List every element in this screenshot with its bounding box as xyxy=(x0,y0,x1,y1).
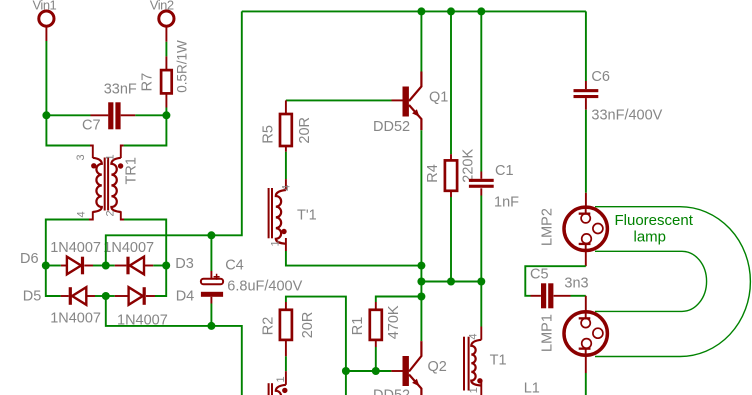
wire R4 bottom pin lead xyxy=(450,191,452,197)
wire D6 anode lead xyxy=(61,265,67,267)
wire LMP1 top pin lead xyxy=(585,296,587,311)
wire R7 top pin lead xyxy=(165,56,167,70)
svg-text:1: 1 xyxy=(275,376,287,382)
wire R2 top pin lead xyxy=(285,302,287,310)
svg-text:33nF/400V: 33nF/400V xyxy=(591,107,662,123)
wire D5 cathode lead xyxy=(61,295,69,297)
C4 plus sign xyxy=(214,274,220,280)
svg-text:1: 1 xyxy=(468,387,480,393)
wire LMP1 bottom down xyxy=(585,373,587,395)
resistor R5 body xyxy=(280,114,292,146)
wire mid node link xyxy=(421,281,481,283)
junction Q2 base rail xyxy=(342,367,350,375)
svg-text:D4: D4 xyxy=(176,289,195,305)
svg-text:DD52: DD52 xyxy=(373,119,410,135)
junction R1 node xyxy=(417,293,425,301)
TR1 pin 3 polarity dot xyxy=(91,163,96,168)
wire Q1 collector to bus xyxy=(420,11,422,71)
svg-text:220K: 220K xyxy=(461,149,477,183)
wire left node to TR1 pin 3 xyxy=(46,115,90,145)
svg-text:D6: D6 xyxy=(20,251,39,267)
diode D6 xyxy=(67,257,81,275)
wire D5 anode lead xyxy=(86,295,95,297)
svg-text:Q2: Q2 xyxy=(428,359,447,375)
svg-text:1nF: 1nF xyxy=(494,195,519,211)
transistor Q1 collector xyxy=(409,72,421,102)
wire TR1 pin 2 lead xyxy=(121,211,124,219)
wire D5 to minus node xyxy=(95,295,106,297)
junction C1 bottom xyxy=(477,278,485,286)
wire T1 pin 1 down xyxy=(480,381,482,395)
junction C4 plus xyxy=(207,231,215,239)
junction C1 at bus xyxy=(477,7,485,15)
transformer core T'1 xyxy=(268,188,270,238)
resistor R2 body xyxy=(280,310,292,340)
lamp LMP1 xyxy=(564,311,607,356)
wire R2 bottom pin lead xyxy=(285,340,287,356)
wire T1 pin 4 lead xyxy=(480,327,482,340)
wire T'1 to emitter node xyxy=(286,251,422,266)
capacitor C6 xyxy=(574,89,599,92)
wire Q1 base pin lead xyxy=(392,99,403,101)
svg-text:D3: D3 xyxy=(175,256,194,272)
junction R4 at bus xyxy=(447,7,455,15)
diode D4 xyxy=(129,287,143,305)
svg-text:6.8uF/400V: 6.8uF/400V xyxy=(227,279,302,295)
svg-text:4: 4 xyxy=(281,185,293,191)
wire C6 top pin lead xyxy=(585,81,587,89)
wire C4 top xyxy=(210,235,212,271)
T'1 lower polarity dot xyxy=(282,388,287,393)
wire TR1 pin 4 to bridge xyxy=(46,220,89,266)
junction R1 at base xyxy=(372,367,380,375)
svg-text:R7: R7 xyxy=(140,73,156,92)
wire D4 cathode lead xyxy=(146,295,155,297)
junction mid node xyxy=(417,278,425,286)
wire T'1 pin 4 lead xyxy=(285,179,287,190)
svg-text:T'1: T'1 xyxy=(297,208,317,224)
transformer core T'1 lower xyxy=(268,383,270,395)
wire to D6 anode xyxy=(46,265,61,267)
junction bridge AC right xyxy=(162,262,170,270)
wire TR1 pin 3 lead xyxy=(90,146,93,159)
wire Vin2 pin lead xyxy=(165,26,167,42)
junction node right of C7 xyxy=(162,111,170,119)
wire TR1 pin 4 lead xyxy=(89,211,93,219)
wire bus corner to C6 xyxy=(585,11,587,81)
wire R4 top xyxy=(450,11,452,154)
wire R5 bottom pin lead xyxy=(285,146,287,152)
wire right node to TR1 pin 1 xyxy=(124,115,167,145)
wire C1 bottom xyxy=(480,196,482,282)
wire C4 bottom pin lead xyxy=(210,297,212,304)
junction R4 bottom xyxy=(447,278,455,286)
terminal Vin2 xyxy=(159,11,174,26)
wire C4 bottom xyxy=(210,304,212,326)
transformer winding T'1 primary xyxy=(276,190,286,244)
wire R1 bottom pin lead xyxy=(375,340,377,347)
svg-text:1N4007: 1N4007 xyxy=(50,311,101,327)
wire LMP2 top pin lead xyxy=(585,193,587,207)
svg-text:T1: T1 xyxy=(490,353,507,369)
wire C4 top pin lead xyxy=(210,271,212,279)
fluorescent tube outer loop wire xyxy=(595,207,750,357)
lamp LMP2 xyxy=(564,206,607,251)
junction bridge plus output xyxy=(102,262,110,270)
wire D6 to plus node xyxy=(93,265,106,267)
svg-text:0.5R/1W: 0.5R/1W xyxy=(175,40,190,93)
wire C6 to LMP2 xyxy=(585,110,587,193)
capacitor C4 positive plate xyxy=(201,279,223,285)
wire LMP2 to C5 xyxy=(525,266,586,296)
wire C7 left pin lead xyxy=(91,114,109,116)
wire Q1 emitter down xyxy=(420,130,422,341)
transistor Q1 emitter arrow xyxy=(412,109,419,117)
svg-text:3n3: 3n3 xyxy=(564,276,588,292)
capacitor C1 xyxy=(469,179,494,182)
wire minus node to bottom rail xyxy=(106,296,242,395)
wire minus node to D4 xyxy=(106,295,115,297)
transistor Q2 emitter arrow xyxy=(412,379,419,387)
junction C4 minus xyxy=(207,322,215,330)
transistor Q2 base bar xyxy=(403,356,409,386)
wire C7 right pin lead xyxy=(121,114,136,116)
wire AC left down to D5 xyxy=(46,266,61,297)
wire D3 to AC right xyxy=(153,265,166,267)
wire R5 to T'1 xyxy=(285,152,287,179)
svg-text:20R: 20R xyxy=(300,312,316,339)
wire R1 top to node xyxy=(376,297,422,303)
wire C5 to LMP1 xyxy=(571,295,586,297)
svg-text:R5: R5 xyxy=(261,125,277,144)
transformer winding T1 winding xyxy=(471,340,481,386)
diode D3 xyxy=(130,257,144,275)
svg-text:4: 4 xyxy=(468,333,480,339)
capacitor C7 xyxy=(108,102,113,129)
transistor Q2 emitter xyxy=(409,375,421,395)
wire D4 anode lead xyxy=(115,295,129,297)
wire node to C7 left xyxy=(46,114,90,116)
svg-text:4: 4 xyxy=(76,211,88,217)
wire R2 to T'1 lower xyxy=(285,356,287,371)
svg-text:Q1: Q1 xyxy=(429,90,448,106)
junction node left of C7 xyxy=(42,111,50,119)
wire TR1 pin 2 to bridge xyxy=(124,220,166,266)
wire C7 right to node xyxy=(135,114,166,116)
svg-text:20R: 20R xyxy=(297,117,313,144)
wire R2 top to base rail xyxy=(286,297,346,395)
svg-text:1N4007: 1N4007 xyxy=(50,240,101,256)
junction Q1 collector at bus xyxy=(417,7,425,15)
wire Q2 base pin lead xyxy=(391,370,402,372)
wire LMP2 bottom pin lead xyxy=(585,251,587,266)
wire D3 cathode lead xyxy=(115,265,127,267)
wire T'1 pin 1 lead xyxy=(285,238,287,251)
svg-text:C4: C4 xyxy=(225,257,244,273)
wire C6 bottom pin lead xyxy=(585,98,587,110)
junction bridge minus output xyxy=(102,292,110,300)
wire Vin2 to R7 xyxy=(165,42,167,57)
svg-text:L1: L1 xyxy=(524,381,540,395)
svg-text:470K: 470K xyxy=(386,305,402,339)
wire TR1 pin 1 lead xyxy=(121,146,124,159)
svg-text:1: 1 xyxy=(270,240,282,246)
svg-text:Fluorescent: Fluorescent xyxy=(615,212,694,229)
wire D6 cathode lead xyxy=(84,265,93,267)
capacitor C4 negative plate xyxy=(201,292,223,297)
wire D4 to AC right xyxy=(155,266,166,297)
svg-text:2: 2 xyxy=(105,210,117,216)
svg-text:C7: C7 xyxy=(82,117,101,133)
fluorescent tube inner loop wire xyxy=(595,251,707,311)
wire plus node to D3 xyxy=(106,265,115,267)
wire C1 bottom pin lead xyxy=(480,188,482,195)
wire top supply bus xyxy=(242,10,586,12)
svg-text:C5: C5 xyxy=(530,267,549,283)
wire R1 bottom xyxy=(375,347,377,371)
T'1 pin 1 polarity dot xyxy=(281,229,286,234)
terminal Vin1 xyxy=(39,11,54,26)
wire R7 bottom pin lead xyxy=(165,93,167,107)
transformer winding TR1 secondary xyxy=(111,158,120,212)
wire C1 top pin lead xyxy=(480,172,482,179)
wire R5 top to Q1 base xyxy=(286,99,392,101)
transformer core T1 xyxy=(463,337,465,391)
junction emitter T'1 node xyxy=(417,262,425,270)
wire Vin1 to C7 node xyxy=(45,41,47,115)
svg-text:33nF: 33nF xyxy=(104,82,137,98)
wire D3 anode lead xyxy=(144,265,153,267)
capacitor C5 xyxy=(541,283,546,308)
svg-text:1: 1 xyxy=(105,154,117,160)
svg-text:C6: C6 xyxy=(591,69,610,85)
svg-text:lamp: lamp xyxy=(634,229,667,246)
svg-text:TR1: TR1 xyxy=(124,157,140,184)
wire R4 top pin lead xyxy=(450,154,452,160)
T1 pin 1 polarity dot xyxy=(477,378,482,383)
resistor R1 body xyxy=(370,310,382,340)
wire T'1 lower pin lead xyxy=(285,371,287,385)
wire R5 top pin lead xyxy=(285,100,287,114)
wire R4 bottom xyxy=(450,197,452,282)
wire R7 to node xyxy=(165,108,167,116)
svg-text:1N4007: 1N4007 xyxy=(103,240,154,256)
wire C5 left pin lead xyxy=(531,295,541,297)
transistor Q1 emitter xyxy=(409,105,421,130)
svg-text:C1: C1 xyxy=(495,163,514,179)
wire plus node up to bus xyxy=(106,11,242,265)
wire LMP1 bottom pin lead xyxy=(585,356,587,374)
svg-text:LMP1: LMP1 xyxy=(540,314,556,352)
svg-text:R1: R1 xyxy=(350,317,366,336)
svg-text:DD52: DD52 xyxy=(373,388,410,395)
wire C5 right pin lead xyxy=(554,295,571,297)
transformer core TR1 xyxy=(104,158,106,211)
TR1 pin 1 polarity dot xyxy=(118,163,123,168)
transformer winding T'1 secondary xyxy=(276,385,286,395)
svg-text:R2: R2 xyxy=(261,317,277,336)
wire R1 top pin lead xyxy=(375,302,377,310)
svg-text:R4: R4 xyxy=(425,164,441,183)
junction bridge AC left xyxy=(42,262,50,270)
wire C1 top xyxy=(480,11,482,171)
transistor Q2 collector xyxy=(409,341,421,371)
wire base rail to Q2 xyxy=(346,370,392,372)
svg-text:D5: D5 xyxy=(23,289,42,305)
wire Vin1 pin lead xyxy=(45,26,47,41)
transformer winding TR1 primary xyxy=(93,158,102,212)
diode D5 xyxy=(72,287,86,305)
svg-text:3: 3 xyxy=(75,154,87,160)
resistor R7 body xyxy=(161,70,172,93)
resistor R4 body xyxy=(445,160,457,190)
transistor Q1 base bar xyxy=(403,87,409,117)
wire T1 top xyxy=(480,282,482,327)
svg-text:LMP2: LMP2 xyxy=(540,208,556,246)
